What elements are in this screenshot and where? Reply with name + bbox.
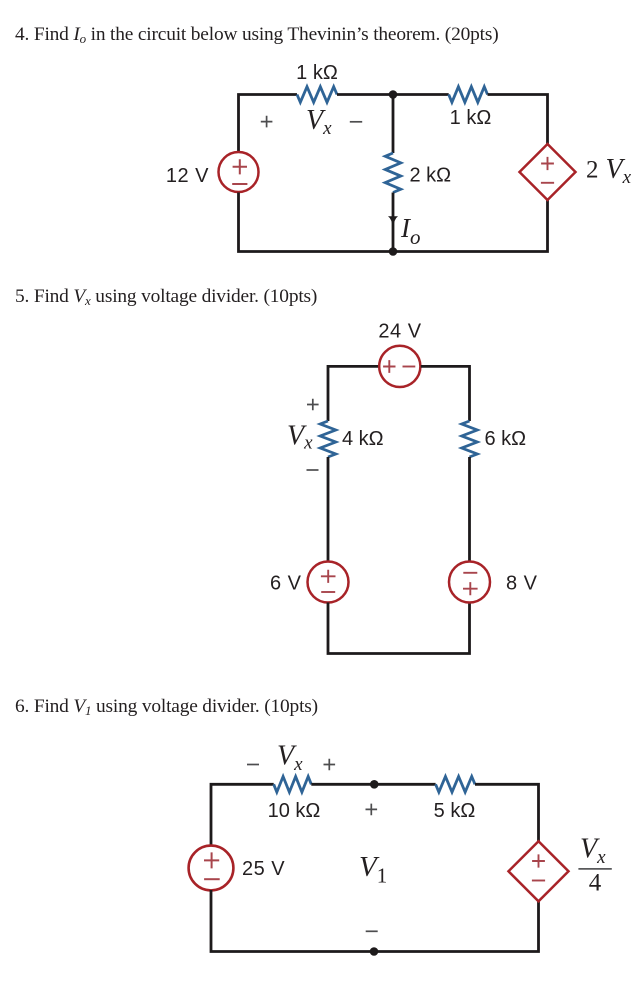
- svg-text:5. Find Vx using voltage divid: 5. Find Vx using voltage divider. (10pts…: [15, 286, 317, 308]
- resistor 4 kOhm: [320, 421, 336, 457]
- wire top-left corner segment circuit 2: [328, 366, 379, 421]
- voltage source 25 V: [189, 846, 234, 891]
- svg-text:4: 4: [589, 870, 602, 897]
- wire bottom U segment circuit 3: [211, 890, 539, 952]
- resistor 5 kOhm: [436, 777, 475, 793]
- svg-text:1 kΩ: 1 kΩ: [296, 62, 338, 84]
- wire top-left corner segment circuit 3: [211, 784, 274, 846]
- svg-text:4. Find Io in the circuit belo: 4. Find Io in the circuit below using Th…: [15, 24, 498, 46]
- wire left middle segment circuit 2: [327, 457, 330, 562]
- wire bottom U segment circuit 2: [328, 603, 470, 654]
- svg-text:10 kΩ: 10 kΩ: [268, 800, 321, 822]
- resistor 2 kOhm: [385, 153, 401, 192]
- wire right middle segment circuit 2: [468, 457, 471, 562]
- voltage source 6 V: [308, 562, 349, 603]
- current arrow Io: [388, 216, 398, 228]
- polarity minus of Vx circuit 2: [307, 469, 319, 471]
- voltage source 8 V: [449, 562, 490, 603]
- svg-text:25 V: 25 V: [242, 858, 285, 880]
- svg-text:1 kΩ: 1 kΩ: [450, 107, 492, 129]
- svg-text:12 V: 12 V: [166, 165, 209, 187]
- svg-text:6 kΩ: 6 kΩ: [485, 428, 527, 450]
- node top junction circuit 3: [370, 780, 379, 789]
- svg-text:6 V: 6 V: [270, 573, 302, 595]
- wire bottom U segment circuit 1: [239, 193, 548, 252]
- wire middle lower segment circuit 1: [392, 193, 395, 252]
- svg-text:5 kΩ: 5 kΩ: [434, 800, 476, 822]
- voltage source 24 V: [379, 346, 420, 387]
- svg-text:2 kΩ: 2 kΩ: [410, 165, 452, 187]
- polarity plus of Vx circuit 1: [261, 116, 273, 128]
- svg-text:4 kΩ: 4 kΩ: [342, 428, 384, 450]
- resistor 1 kOhm (top-left): [297, 87, 337, 103]
- wire top-left corner segment circuit 1: [239, 95, 298, 152]
- node B bottom-middle junction circuit 1: [389, 247, 398, 256]
- polarity minus of Vx circuit 3: [247, 764, 259, 766]
- polarity minus of V1: [366, 930, 378, 932]
- svg-text:24 V: 24 V: [378, 321, 421, 343]
- wire top-right corner segment circuit 3: [475, 784, 539, 841]
- resistor 10 kOhm: [274, 777, 312, 793]
- resistor 1 kOhm (top-right): [449, 87, 488, 103]
- polarity plus of Vx circuit 3: [324, 759, 336, 771]
- polarity minus of Vx circuit 1: [350, 121, 362, 123]
- wire top-middle segment circuit 1: [337, 93, 449, 96]
- wire middle upper segment circuit 1: [392, 95, 395, 154]
- wire top-right corner segment circuit 2: [421, 366, 470, 421]
- dependent source 2Vx (diamond): [520, 144, 576, 200]
- resistor 6 kOhm: [462, 421, 478, 457]
- polarity plus of V1: [366, 804, 378, 816]
- svg-text:6. Find V1 using voltage divid: 6. Find V1 using voltage divider. (10pts…: [15, 696, 318, 718]
- voltage source 12 V: [219, 152, 259, 192]
- polarity plus of Vx circuit 2: [307, 399, 319, 411]
- wire top-middle segment circuit 3: [311, 783, 435, 786]
- node bottom junction circuit 3: [370, 947, 379, 956]
- node A top-middle junction circuit 1: [389, 90, 398, 99]
- wire top-right corner segment circuit 1: [488, 95, 548, 145]
- svg-text:8 V: 8 V: [506, 573, 538, 595]
- dependent source Vx/4 (diamond): [509, 841, 569, 901]
